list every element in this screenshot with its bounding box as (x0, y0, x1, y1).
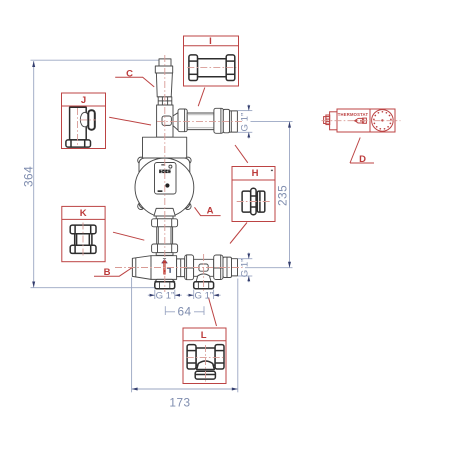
box H leader top (235, 145, 248, 163)
box I (184, 36, 239, 86)
tee boss (199, 264, 208, 271)
tee branch vertical centerline (203, 254, 205, 292)
top pipe (187, 113, 214, 130)
short neck above valve B (156, 253, 173, 256)
dimension G1 port 1 (154, 290, 156, 300)
tee right nut (214, 255, 223, 280)
bottom port 1 nut (155, 282, 175, 289)
box L body (196, 348, 215, 365)
svg-text:G 1”: G 1” (194, 290, 213, 301)
right threaded tip (232, 259, 238, 276)
svg-text:235: 235 (276, 185, 290, 206)
pump control box (155, 163, 177, 195)
box H (232, 167, 275, 222)
valve B body (151, 256, 177, 280)
pump housing top (143, 137, 187, 159)
svg-text:G 1”: G 1” (239, 113, 250, 132)
valve B right collar (177, 259, 185, 277)
box L bottom port (195, 371, 215, 379)
dimension 364 (31, 59, 159, 61)
box H leader bottom (230, 223, 247, 244)
box H corner speck (271, 170, 273, 171)
pump motor circle A (135, 158, 194, 217)
box H centerline (237, 201, 270, 203)
box L dome (197, 361, 215, 370)
svg-text:H: H (252, 168, 259, 179)
valve B blue elbow (167, 268, 170, 273)
svg-text:I: I (209, 36, 212, 47)
ESBE logo (159, 170, 171, 174)
thermostat left collar (330, 112, 337, 130)
box J leader (109, 117, 151, 125)
box L (183, 328, 226, 384)
bottom union nut (185, 255, 194, 280)
valve B left face (131, 258, 133, 276)
dimension 64 (164, 306, 166, 315)
box I right hex (226, 55, 235, 81)
svg-text:L: L (201, 330, 207, 341)
box I left hex (189, 55, 198, 81)
pump neck (154, 208, 175, 216)
svg-text:K: K (80, 208, 87, 219)
bottom valve horizontal centerline (115, 267, 243, 269)
thermostat dial (372, 110, 394, 132)
valve C flange (155, 66, 172, 73)
control box small circle (169, 165, 172, 168)
box I leader (198, 88, 205, 107)
label D (350, 138, 360, 164)
box L leader (209, 298, 217, 327)
box K (62, 206, 105, 261)
dimension G1 port 2 (193, 290, 195, 300)
valve B red handle symbol (163, 257, 166, 259)
box L left hex (187, 345, 196, 369)
box J (62, 93, 106, 149)
svg-text:364: 364 (21, 166, 35, 187)
box L right hex (215, 345, 224, 369)
control box small dash (161, 164, 164, 165)
tee branch dome (196, 274, 211, 282)
thermostat D body (337, 109, 395, 132)
valve C lower nut (158, 97, 172, 105)
control knob dot (165, 183, 169, 187)
dimension 235 (251, 120, 293, 122)
lower connecting tube (157, 227, 173, 244)
svg-text:J: J (81, 95, 86, 106)
svg-text:THERMOSTAT: THERMOSTAT (338, 112, 369, 117)
pump union nut upper (152, 219, 178, 227)
pump square flange (139, 158, 190, 209)
box J side bump (80, 112, 89, 126)
valve C vertical tube (157, 105, 173, 137)
box J bottom nut (66, 140, 91, 147)
dimension 173 (131, 278, 133, 393)
valve B cone (132, 256, 151, 280)
box H right thread (257, 191, 265, 212)
box K leader (113, 232, 144, 240)
box H left thread (242, 191, 251, 212)
box J tube (70, 107, 87, 140)
box I centerline (187, 67, 236, 69)
dimension G1 top right (238, 110, 253, 112)
box J centerlines (77, 108, 79, 146)
bottom port 2 nut (194, 282, 214, 289)
top right nut (214, 108, 223, 133)
pump flange ears (138, 157, 145, 164)
right ring (223, 257, 232, 277)
valve C body (156, 73, 172, 97)
box L centerlines (187, 357, 225, 359)
thermostat bulb (357, 118, 365, 123)
box H center hex (251, 188, 256, 214)
main vertical centerline (164, 55, 166, 292)
svg-text:64: 64 (177, 305, 191, 319)
svg-text:D: D (359, 154, 366, 165)
box K bottom hex (70, 245, 96, 253)
air vent valve C : cap (159, 59, 171, 66)
svg-text:173: 173 (169, 396, 190, 410)
top right ring (223, 109, 229, 132)
box K centerline (82, 223, 84, 258)
top right threaded tip (230, 111, 238, 132)
top pipe horizontal centerline (157, 120, 243, 122)
box J handle pill (88, 110, 95, 130)
top outlet cone (173, 113, 178, 131)
top union nut (178, 109, 187, 132)
box K top hex (70, 225, 96, 234)
box K middle tube (75, 234, 92, 246)
dimension G1 bottom right (238, 258, 252, 260)
bottom port 1 shoulder (155, 279, 175, 281)
svg-text:A: A (207, 206, 214, 217)
valve C side boss (162, 116, 171, 125)
tee body (194, 259, 214, 276)
control box bottom mark (158, 190, 163, 192)
box I nipple tube (197, 59, 226, 77)
thermostat centerline (322, 120, 401, 122)
pump union nut lower (152, 244, 178, 253)
svg-text:G 1”: G 1” (239, 259, 250, 278)
